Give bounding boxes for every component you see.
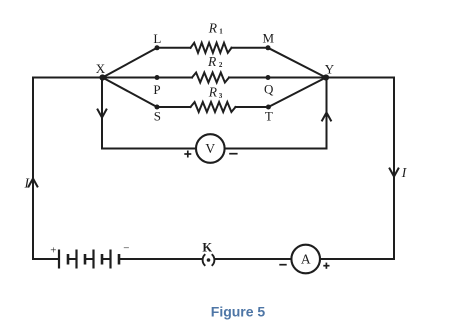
- svg-text:L: L: [153, 31, 161, 46]
- svg-text:R: R: [208, 84, 218, 99]
- svg-text:I: I: [401, 165, 408, 180]
- svg-text:Y: Y: [325, 61, 335, 76]
- svg-text:Q: Q: [264, 81, 274, 96]
- svg-text:Figure 5: Figure 5: [211, 304, 266, 320]
- svg-text:A: A: [301, 252, 311, 267]
- svg-text:K: K: [202, 240, 212, 254]
- svg-text:X: X: [96, 61, 106, 76]
- svg-text:1: 1: [219, 28, 223, 36]
- svg-text:T: T: [265, 109, 273, 124]
- svg-text:3: 3: [219, 92, 223, 100]
- svg-text:−: −: [123, 243, 129, 255]
- svg-text:+: +: [50, 245, 56, 257]
- svg-text:2: 2: [219, 61, 223, 69]
- svg-text:S: S: [154, 109, 161, 124]
- svg-text:R: R: [207, 54, 217, 69]
- svg-text:P: P: [153, 82, 160, 97]
- svg-text:V: V: [205, 141, 215, 156]
- svg-text:R: R: [208, 21, 218, 36]
- svg-text:M: M: [263, 30, 275, 45]
